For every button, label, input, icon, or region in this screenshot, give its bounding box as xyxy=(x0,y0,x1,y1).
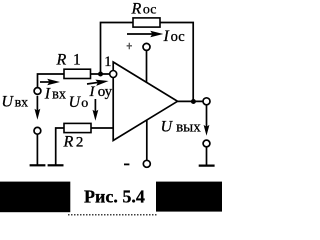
positive supply wire xyxy=(146,51,148,83)
lower output terminal circle xyxy=(203,140,210,147)
minus sign xyxy=(124,164,129,166)
negative supply terminal xyxy=(143,160,150,167)
wire: R2 left to ground xyxy=(56,128,64,165)
resistor R1 xyxy=(64,69,91,78)
resistor R2 xyxy=(64,123,91,132)
svg-text:R2: R2 xyxy=(63,133,84,150)
caption black bar right xyxy=(156,182,222,212)
output terminal circle (Uвых top) xyxy=(203,98,210,105)
current arrow Iоу xyxy=(87,78,109,87)
svg-text:Rос: Rос xyxy=(131,1,157,18)
resistor Roc xyxy=(133,18,160,27)
input terminal circle (Uвх top) xyxy=(34,88,41,95)
voltage arrow Uо xyxy=(93,99,99,121)
ground (R2) xyxy=(48,164,64,166)
svg-text:1: 1 xyxy=(104,54,111,70)
negative supply wire xyxy=(146,120,148,160)
wire: R2 to non-inverting input xyxy=(91,127,113,129)
wire: R1 to inverting input xyxy=(91,73,111,75)
voltage arrow Uвых xyxy=(204,105,210,136)
svg-text:Uвых: Uвых xyxy=(161,118,202,135)
positive supply terminal xyxy=(143,43,150,50)
svg-text:Iвх: Iвх xyxy=(44,86,66,103)
svg-text:Uо: Uо xyxy=(69,94,89,111)
inversion bubble at pin 1 xyxy=(110,71,117,78)
plus sign xyxy=(127,43,132,50)
svg-text:Iос: Iос xyxy=(163,28,185,45)
wire: feedback path from junction up over Roc to output xyxy=(101,23,134,73)
lower input terminal circle xyxy=(34,127,41,134)
wire: op-amp output to terminal xyxy=(178,100,204,102)
dotted underline xyxy=(68,214,157,216)
wire: input terminal up and right to R1 xyxy=(38,74,65,88)
ground (input side) xyxy=(30,134,46,165)
node: output junction xyxy=(191,99,196,104)
wire: Roc right to output node xyxy=(160,23,193,102)
voltage arrow Uвх xyxy=(35,96,41,120)
current arrow Iвх xyxy=(40,79,60,85)
current arrow Iос xyxy=(127,31,163,38)
op-amp U1 triangle xyxy=(113,62,177,141)
caption black bar left xyxy=(0,182,70,213)
node: feedback junction on inverting input xyxy=(98,72,103,77)
svg-text:Uвх: Uвх xyxy=(1,94,28,111)
svg-text:Iоу: Iоу xyxy=(89,84,113,100)
ground (output side) xyxy=(199,147,215,166)
svg-text:Рис. 5.4: Рис. 5.4 xyxy=(84,186,145,206)
